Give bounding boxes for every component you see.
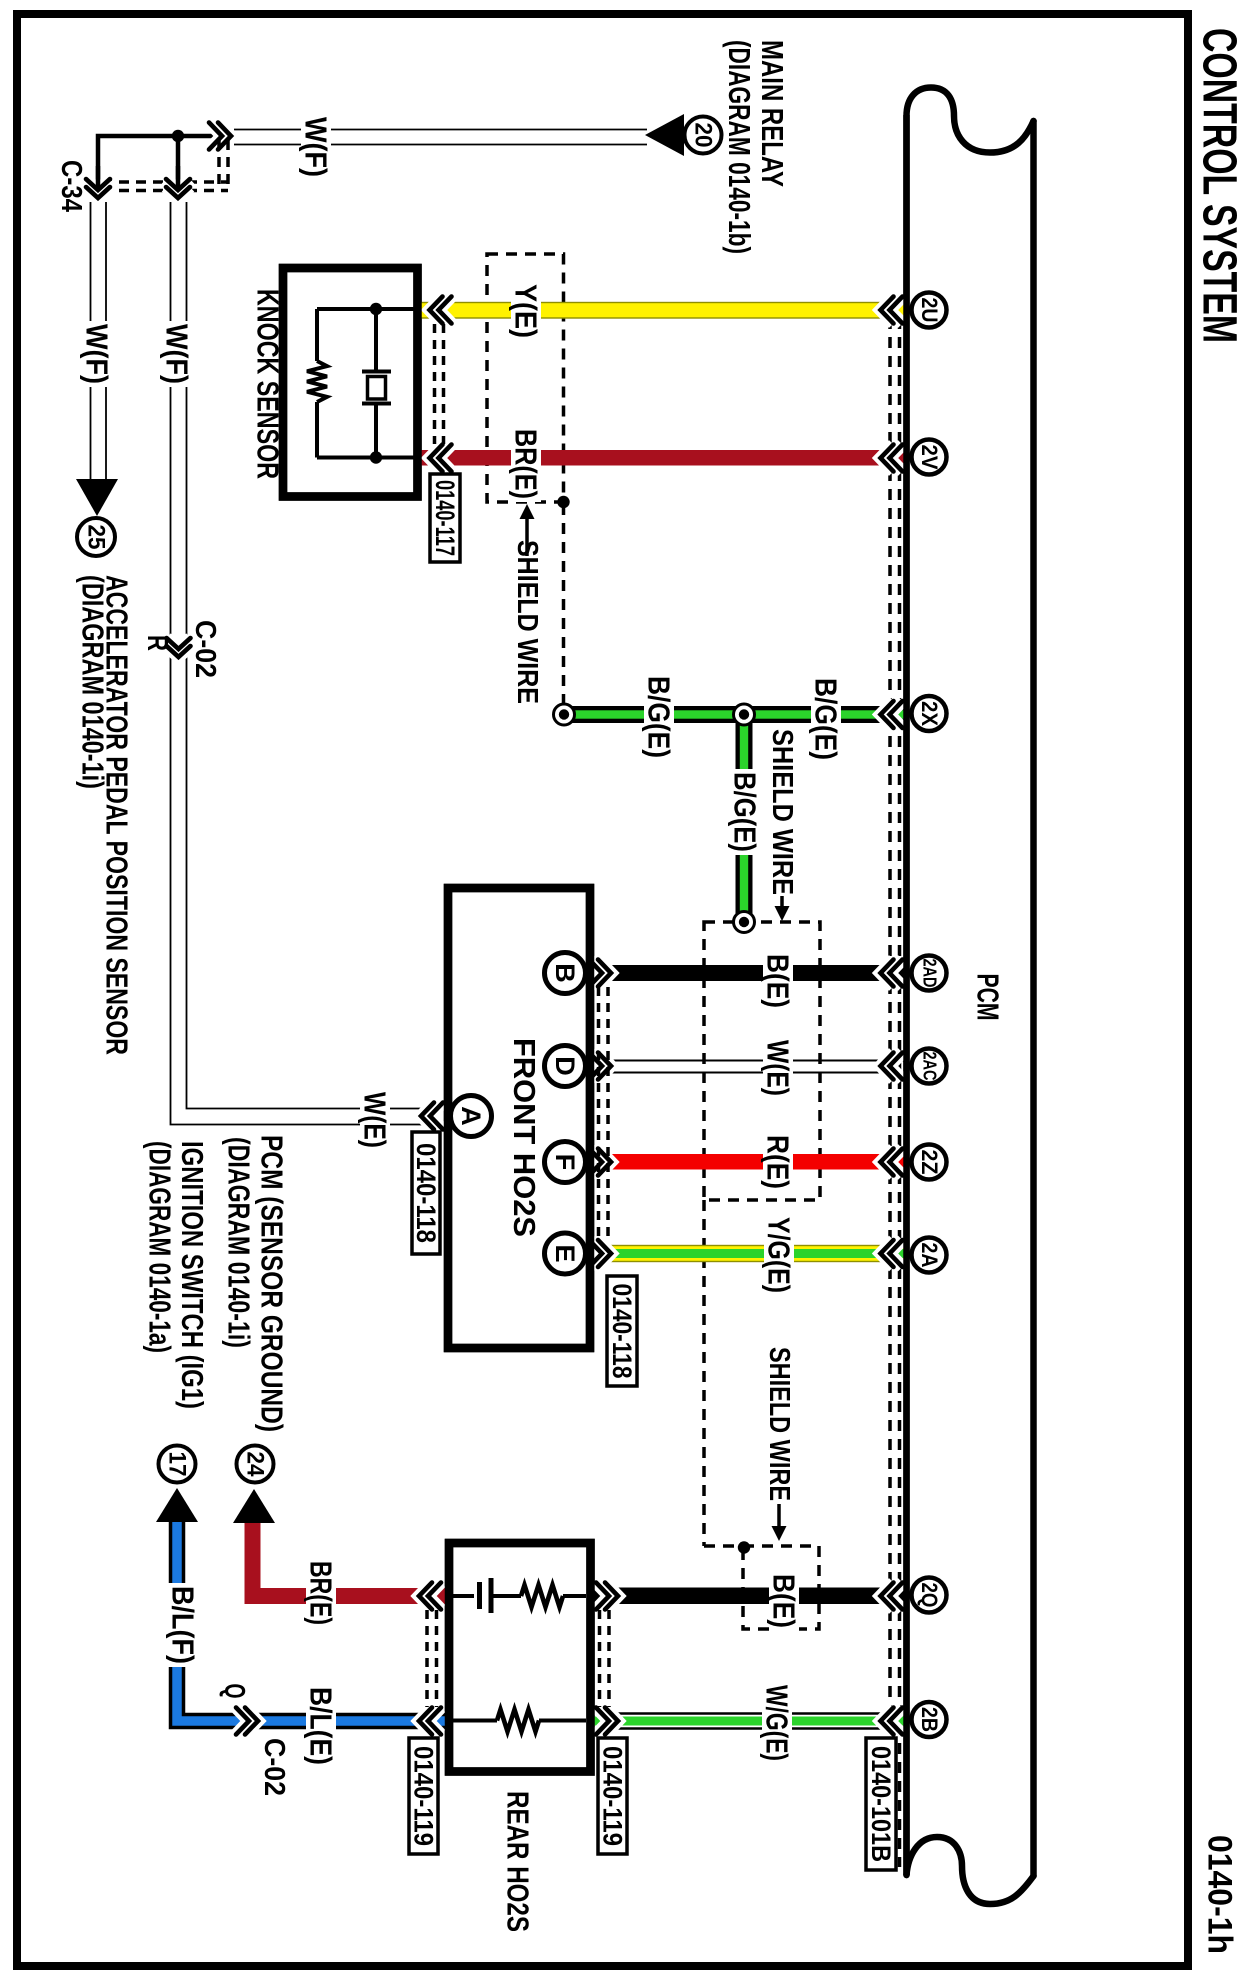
svg-text:BR(E): BR(E) — [509, 429, 544, 499]
chevrons PCM side — [881, 297, 894, 324]
svg-text:0140-117: 0140-117 — [430, 480, 460, 556]
shield dashed line front-to-rear — [702, 1200, 706, 1546]
svg-text:0140-118: 0140-118 — [607, 1284, 637, 1379]
rear HO2S capacitor — [480, 1578, 492, 1613]
knock sensor resistor — [307, 361, 327, 402]
svg-text:(DIAGRAM 0140-1i): (DIAGRAM 0140-1i) — [76, 575, 111, 789]
svg-text:0140-1h: 0140-1h — [1201, 1835, 1239, 1954]
C-34 connector dashed lines — [85, 180, 228, 184]
knock sensor piezo element — [362, 372, 391, 404]
wire BR(E) knock sensor to PCM 2V — [419, 450, 908, 466]
svg-text:W(E): W(E) — [761, 1040, 796, 1096]
svg-text:2U: 2U — [917, 298, 942, 323]
svg-text:F: F — [550, 1154, 580, 1171]
wire W(E) to front HO2S pin A (double thin) — [171, 202, 446, 1125]
svg-text:MAIN RELAY: MAIN RELAY — [755, 40, 790, 187]
svg-text:C-02: C-02 — [189, 620, 221, 678]
front HO2S pin D — [545, 1046, 586, 1087]
wire label W(E) pin A — [360, 1089, 390, 1151]
svg-text:E: E — [550, 1244, 580, 1262]
svg-text:0140-119: 0140-119 — [409, 1746, 439, 1846]
svg-text:CONTROL SYSTEM: CONTROL SYSTEM — [1193, 28, 1241, 343]
rear HO2S box outline redraw — [449, 1543, 591, 1772]
jumper stubs redraw at C-34 — [98, 166, 178, 191]
knock sensor node bottom — [370, 451, 382, 463]
PCM pin 2V — [912, 440, 947, 475]
arrow 24 to PCM sensor ground — [233, 1489, 275, 1523]
wire B/L rear HO2S to arrow 17 — [177, 1520, 449, 1721]
wire W(E) front HO2S pin D to PCM 2AC — [587, 1060, 908, 1062]
PCM connector outline — [907, 88, 1034, 1876]
wire label Y(E) — [511, 281, 541, 341]
svg-text:(DIAGRAM 0140-1a): (DIAGRAM 0140-1a) — [143, 1141, 178, 1353]
svg-text:B(E): B(E) — [761, 954, 796, 1008]
wire BR(E) rear HO2S to arrow 24 — [253, 1521, 450, 1596]
svg-text:W/G(E): W/G(E) — [760, 1685, 795, 1761]
svg-text:Y/G(E): Y/G(E) — [762, 1217, 797, 1293]
arrow 20 to main relay — [645, 114, 684, 156]
front HO2S pin E — [545, 1233, 586, 1274]
knock sensor box outline redraw — [283, 268, 418, 497]
SHIELD WIRE callout (rear) arrow — [777, 1504, 781, 1527]
knock sensor node top — [370, 303, 382, 315]
wire label R(E) — [763, 1132, 793, 1192]
shield dashed line knock-to-B/G wire — [562, 504, 566, 706]
svg-text:IGNITION SWITCH (IG1): IGNITION SWITCH (IG1) — [175, 1141, 210, 1409]
svg-text:0140-119: 0140-119 — [598, 1746, 628, 1846]
wire label B/L(F) — [168, 1583, 198, 1667]
chevrons knock sensor side — [430, 297, 443, 324]
wire B(E) rear HO2S to PCM 2Q — [591, 1588, 908, 1605]
arrow 25 to accelerator pedal position sensor — [76, 479, 118, 516]
wire label BR(E) rear — [306, 1558, 336, 1628]
ref box 0140-101B — [866, 1738, 896, 1870]
svg-text:2Z: 2Z — [917, 1150, 942, 1175]
svg-text:A: A — [456, 1106, 486, 1126]
wire label W(F) top — [301, 114, 331, 180]
wire label W(F) left1 — [82, 321, 112, 387]
PCM pin 2Z — [912, 1145, 947, 1180]
ref box 0140-119 right — [598, 1738, 627, 1854]
wire W/G(E) rear HO2S to PCM 2B — [593, 1712, 908, 1715]
dashed pair rear right — [598, 1610, 602, 1707]
svg-text:B/G(E): B/G(E) — [642, 676, 677, 758]
wire B/G(E) vertical branch to front HO2S shield — [736, 714, 753, 922]
svg-text:2B: 2B — [917, 1707, 942, 1732]
svg-text:2X: 2X — [917, 701, 942, 726]
wire W(F) top pair to arrow 20 — [234, 129, 647, 131]
svg-text:25: 25 — [83, 525, 110, 550]
svg-text:SHIELD WIRE: SHIELD WIRE — [766, 729, 798, 895]
wire label B/L(E) — [306, 1684, 336, 1768]
ref box 0140-117 — [430, 474, 460, 562]
wire label B(E) front — [763, 951, 793, 1011]
shield wire dashed box (front HO2S) — [704, 922, 820, 1200]
PCM pin 2B — [912, 1702, 947, 1737]
C-34 chevrons — [86, 179, 110, 190]
svg-text:24: 24 — [242, 1452, 269, 1478]
svg-text:2AC: 2AC — [920, 1052, 940, 1081]
chevrons rear HO2S right — [596, 1583, 609, 1610]
knock sensor box — [283, 268, 418, 497]
svg-text:2AD: 2AD — [920, 959, 940, 988]
chevrons front HO2S pins — [589, 960, 602, 987]
wire Y/G(E) front HO2S pin E to PCM 2A — [587, 1246, 908, 1262]
wire label BR(E) — [511, 426, 541, 502]
svg-text:17: 17 — [164, 1452, 191, 1477]
wire label B(E) rear — [769, 1571, 799, 1631]
front HO2S pin B — [545, 953, 586, 994]
svg-text:R: R — [141, 635, 173, 651]
svg-text:Y(E): Y(E) — [509, 284, 544, 338]
PCM pin 2A — [912, 1238, 947, 1273]
svg-text:SHIELD WIRE: SHIELD WIRE — [511, 540, 543, 704]
chevron mid-wire R C-02 on W(E) — [167, 638, 191, 649]
wire label W/G(E) — [762, 1682, 792, 1764]
svg-text:B/L(F): B/L(F) — [166, 1586, 201, 1664]
front HO2S pin A — [451, 1096, 492, 1137]
svg-text:BR(E): BR(E) — [304, 1561, 339, 1625]
PCM pin 2AD — [912, 956, 947, 991]
knock sensor internal wiring — [317, 309, 417, 458]
wire label B/G(E) left — [644, 673, 674, 761]
rear HO2S internal top branch — [453, 1594, 586, 1598]
front HO2S box — [448, 888, 590, 1348]
ref box 0140-118 pin A — [412, 1132, 440, 1254]
svg-text:W(F): W(F) — [80, 324, 115, 384]
terminal dot B/G at shield box — [734, 912, 755, 933]
thick jumper wire top-left — [98, 136, 220, 192]
PCM left line redraw — [903, 115, 910, 1875]
svg-text:2V: 2V — [917, 445, 942, 470]
junction node top-left — [172, 130, 184, 142]
ref box 0140-119 left — [409, 1738, 438, 1854]
svg-text:(DIAGRAM 0140-1i): (DIAGRAM 0140-1i) — [222, 1137, 257, 1348]
svg-text:D: D — [550, 1056, 580, 1076]
wire label W(F) left2 — [162, 321, 192, 387]
rear HO2S internal bottom branch — [453, 1719, 586, 1723]
svg-text:PCM (SENSOR GROUND): PCM (SENSOR GROUND) — [255, 1135, 290, 1432]
svg-text:R(E): R(E) — [761, 1135, 796, 1189]
svg-text:2A: 2A — [917, 1243, 942, 1268]
junction dot shield rear — [738, 1541, 750, 1553]
rear HO2S resistor top — [521, 1585, 563, 1607]
svg-text:0140-101B: 0140-101B — [866, 1746, 896, 1862]
svg-text:C-34: C-34 — [55, 160, 87, 212]
chevron pin A — [421, 1103, 434, 1130]
PCM pin 2AC — [912, 1049, 947, 1084]
PCM pin 2U — [912, 293, 947, 328]
PCM pin 2X — [912, 696, 947, 731]
ref box 0140-118 pin E — [607, 1276, 637, 1386]
svg-text:0140-118: 0140-118 — [411, 1143, 441, 1243]
shield wire dashed box (knock sensor) — [487, 254, 564, 502]
wire R(E) front HO2S pin F to PCM 2Z — [587, 1154, 908, 1170]
chevrons rear HO2S left — [419, 1583, 432, 1610]
dashed pair knock side — [433, 324, 437, 444]
svg-text:B: B — [550, 963, 580, 983]
wire label Y/G(E) — [764, 1214, 794, 1296]
wire W(F) left pair to arrow 25 — [90, 202, 92, 488]
wire label B/G(E) vertical — [730, 769, 760, 855]
rear HO2S resistor bottom — [497, 1710, 539, 1732]
arrow 17 to ignition switch — [156, 1488, 198, 1522]
chevron top jumper to main relay — [209, 123, 222, 150]
junction dot shield box knock — [557, 496, 569, 508]
PCM pin 2Q — [912, 1578, 947, 1613]
chevron mid-wire C-02 on B/L — [236, 1708, 249, 1735]
front HO2S box outline redraw — [448, 888, 590, 1348]
svg-text:FRONT HO2S: FRONT HO2S — [507, 1038, 542, 1237]
svg-text:Q: Q — [218, 1684, 250, 1699]
svg-text:B(E): B(E) — [767, 1574, 802, 1628]
svg-text:SHIELD WIRE: SHIELD WIRE — [763, 1347, 795, 1501]
svg-text:2Q: 2Q — [917, 1583, 942, 1608]
svg-text:20: 20 — [690, 123, 717, 148]
wire label B/G(E) right — [811, 675, 841, 763]
terminal dot B/G tee junction — [734, 704, 755, 725]
svg-text:(DIAGRAM 0140-1b): (DIAGRAM 0140-1b) — [722, 40, 757, 254]
terminal dot B/G wire left end — [554, 704, 575, 725]
shield wire dashed box (rear HO2S B(E)) — [704, 1544, 745, 1548]
svg-text:W(E): W(E) — [358, 1092, 393, 1148]
svg-text:REAR HO2S: REAR HO2S — [501, 1791, 536, 1932]
svg-text:W(F): W(F) — [160, 324, 195, 384]
rear HO2S box — [449, 1543, 591, 1772]
wire B/G(E) horizontal to PCM 2X — [564, 706, 908, 723]
SHIELD WIRE callout (knock) arrow — [525, 517, 529, 556]
wire B(E) front HO2S pin B to PCM 2AD — [587, 965, 908, 981]
dashed pair rear left — [425, 1610, 429, 1707]
svg-text:C-02: C-02 — [258, 1738, 290, 1796]
svg-text:B/G(E): B/G(E) — [809, 678, 844, 760]
svg-text:PCM: PCM — [971, 974, 1006, 1021]
wire label W(E) front — [763, 1037, 793, 1099]
front HO2S pin F — [545, 1142, 586, 1183]
svg-text:B/L(E): B/L(E) — [304, 1687, 339, 1765]
SHIELD WIRE callout (front) arrow — [780, 896, 784, 907]
svg-text:B/G(E): B/G(E) — [728, 772, 763, 852]
PCM connector boundary dashed lines — [888, 318, 892, 1867]
wire Y(E) knock sensor to PCM 2U — [419, 303, 908, 319]
dashed pair front HO2S side — [597, 987, 601, 1240]
svg-text:W(F): W(F) — [299, 117, 334, 177]
